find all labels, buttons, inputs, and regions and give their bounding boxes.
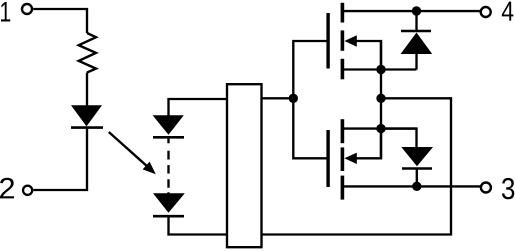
source bus riser: [380, 41, 382, 158]
wire source bus to lower diode: [381, 129, 417, 148]
gate bus wire: [293, 41, 326, 158]
pin 3 label: [502, 178, 514, 199]
pin 1 terminal: [22, 4, 32, 14]
LED D1: [71, 105, 103, 127]
wire driver to gate node: [262, 97, 294, 99]
node top rail junction: [412, 6, 421, 15]
node gate junction: [289, 94, 298, 103]
pin 2 label: [0, 178, 14, 199]
dashed link between photodiodes: [167, 139, 169, 195]
wire Q1 source: [344, 68, 417, 70]
body diode D3 (lower): [401, 147, 433, 186]
mosfet Q1 (top): [328, 3, 381, 80]
feedback loop wire: [262, 98, 452, 234]
photodiode PD2: [153, 193, 185, 216]
pin 2 terminal: [23, 186, 32, 195]
wire photodiode top to driver: [169, 99, 228, 116]
pin 4 terminal: [481, 7, 491, 17]
node Q1 source junction: [376, 65, 385, 74]
body diode D2 (upper): [401, 11, 433, 70]
wire Q2 source: [344, 127, 417, 129]
pin 1 label: [1, 2, 10, 22]
wire photodiode bottom to driver: [169, 218, 228, 235]
photodiode PD1: [153, 115, 184, 137]
node bottom rail junction: [412, 182, 421, 191]
driver block U1: [227, 84, 262, 247]
pin 3 terminal: [481, 183, 491, 193]
light arrow LED to photodiodes: [109, 132, 156, 174]
mosfet Q2 (bottom): [328, 119, 381, 199]
wire LED to pin2: [33, 128, 87, 190]
node Q2 source junction: [376, 124, 385, 133]
top rail to pin 4: [344, 10, 480, 12]
resistor R1: [79, 33, 96, 73]
node feedback junction: [376, 94, 385, 103]
wire pin1 to resistor: [33, 9, 87, 33]
bottom rail to pin 3: [344, 185, 480, 187]
pin 4 label: [502, 2, 514, 21]
wire resistor to LED: [86, 73, 88, 107]
